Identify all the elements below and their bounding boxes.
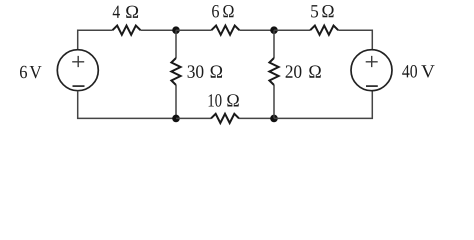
wire top-right: R3 to corner (372,30.2) down to source V2 [338, 30, 372, 50]
node B junction dot (top of 20 ohm) [270, 26, 278, 34]
wire V1 bottom stub [78, 91, 176, 119]
bottom node A junction dot [172, 115, 180, 123]
label 10 ohm [209, 94, 239, 107]
wire node B to 5-ohm resistor [274, 29, 310, 31]
voltage source V2 40V circle [351, 50, 392, 91]
V2 plus sign [366, 56, 378, 67]
wire node A vertical upper (top wire to 30 ohm) [175, 30, 177, 58]
wire 20 ohm to bottom node [273, 85, 275, 118]
resistor R4 30 ohm (vertical) [171, 58, 180, 85]
resistor R1 4 ohm [113, 26, 141, 35]
resistor R2 6 ohm [211, 26, 239, 35]
wire top-left: corner at (78,30.2) to 4-ohm resistor [78, 30, 113, 50]
wire 30 ohm to bottom node [175, 85, 177, 118]
wire 10 ohm to bottom node B [239, 117, 274, 119]
wire node A to 6-ohm resistor [176, 29, 211, 31]
wire R1 to node A [141, 29, 177, 31]
resistor R5 20 ohm (vertical) [269, 58, 278, 85]
node A junction dot (top of 30 ohm) [172, 26, 180, 34]
V1 minus sign [73, 85, 85, 87]
label 6 V [20, 66, 42, 79]
resistor R6 10 ohm [211, 114, 239, 123]
V2 minus sign [366, 85, 378, 87]
wire bottom node B to source V2 [274, 91, 372, 119]
label 5 ohm [311, 5, 333, 17]
label 20 ohm [286, 65, 321, 78]
voltage source V1 6V circle [57, 50, 98, 91]
label 30 ohm [188, 65, 223, 78]
label 40 V [402, 65, 434, 78]
bottom node B junction dot [270, 115, 278, 123]
V1 plus sign [72, 56, 84, 67]
wire R2 to node B [239, 29, 274, 31]
wire node B vertical upper (top wire to 20 ohm) [273, 30, 275, 58]
resistor R3 5 ohm [310, 26, 338, 35]
label 4 ohm [113, 6, 138, 18]
label 6 ohm [212, 5, 234, 17]
wire bottom node A to 10-ohm resistor [176, 117, 211, 119]
